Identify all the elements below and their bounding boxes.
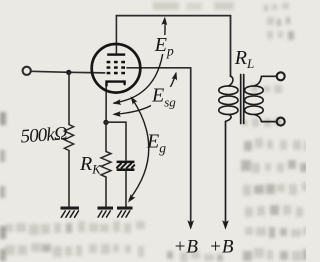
Ep measurement curve (114, 21, 165, 103)
svg-text:Eg: Eg (146, 130, 166, 155)
output terminal top (277, 72, 285, 80)
output terminal bottom (277, 118, 285, 126)
wire screen grid to +B (127, 68, 191, 223)
ground (500k) (61, 207, 80, 218)
ground (RK) (98, 207, 114, 218)
wire top plate to transformer (116, 15, 230, 17)
wire input to grid (31, 71, 105, 73)
svg-text:500kΩ: 500kΩ (20, 123, 69, 147)
arrowhead Ep at cathode (113, 99, 122, 105)
transformer core (241, 75, 244, 124)
tube grids (dot matrix) (107, 61, 125, 75)
capacitor C plates (117, 161, 135, 171)
input terminal J1 (23, 67, 31, 75)
transformer T1 primary coil (219, 76, 238, 121)
arrowhead Esg at screen wire (172, 72, 178, 81)
svg-text:+B: +B (209, 237, 234, 258)
arrowhead Eg at cathode top (131, 96, 138, 105)
Eg measurement curve (129, 99, 148, 200)
Esg measurement curve (115, 74, 176, 115)
svg-text:RL: RL (234, 47, 254, 71)
resistor RK (101, 152, 111, 178)
node cathode junction (103, 120, 108, 125)
tube cathode (107, 82, 125, 86)
arrowhead Ep at plate wire (161, 17, 167, 26)
wire secondary bottom (262, 121, 277, 123)
arrowhead Esg at cathode (112, 111, 121, 117)
wire cathode lead (105, 84, 107, 122)
node grid junction (66, 70, 71, 75)
transformer T1 secondary coil (245, 76, 264, 121)
bleed (153, 2, 179, 10)
arrowhead Eg at ground (128, 194, 136, 203)
wire primary to +B (225, 121, 227, 223)
tube plate (anode) (107, 53, 125, 55)
wire secondary top (262, 75, 277, 77)
wire plate lead (115, 16, 117, 55)
svg-text:RK: RK (79, 153, 101, 177)
arrow +B (primary) (222, 220, 229, 230)
wire junction to 500k resistor (68, 72, 70, 124)
wire cathode junction to RK (105, 122, 107, 151)
tube V1 envelope (92, 44, 141, 93)
wire RK to ground (105, 177, 107, 207)
wire junction to capacitor (106, 122, 126, 160)
label Esg (151, 87, 173, 108)
wire transformer primary top (230, 16, 232, 77)
wire capacitor to ground (125, 171, 127, 207)
wire 500k to ground (68, 151, 70, 208)
ground (capacitor) (117, 207, 133, 218)
svg-text:+B: +B (174, 237, 199, 258)
label Ep (154, 35, 172, 54)
resistor 500kΩ (64, 125, 73, 151)
arrow +B (screen) (187, 220, 194, 230)
